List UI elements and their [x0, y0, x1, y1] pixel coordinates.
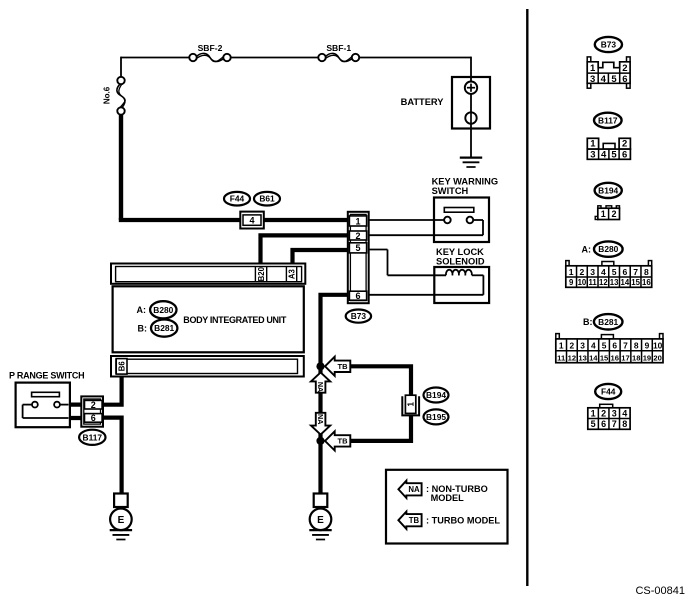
svg-text:No.6: No.6	[102, 86, 111, 104]
svg-text:SBF-1: SBF-1	[326, 43, 351, 53]
svg-text:2: 2	[622, 63, 627, 74]
svg-text:NA: NA	[408, 485, 420, 494]
svg-text:13: 13	[610, 278, 619, 287]
svg-text:12: 12	[599, 278, 608, 287]
svg-text:5: 5	[611, 150, 617, 161]
svg-text:7: 7	[623, 341, 628, 351]
svg-text:B61: B61	[259, 194, 275, 204]
svg-text:15: 15	[631, 278, 640, 287]
svg-text:8: 8	[622, 419, 627, 429]
svg-text:3: 3	[590, 74, 595, 85]
svg-text:3: 3	[580, 341, 585, 351]
svg-text:6: 6	[601, 419, 606, 429]
svg-text:3: 3	[590, 267, 595, 277]
svg-text:8: 8	[634, 341, 639, 351]
svg-text:1: 1	[591, 408, 596, 418]
svg-text:B117: B117	[598, 115, 618, 125]
svg-text:2: 2	[611, 209, 616, 219]
svg-text:19: 19	[643, 353, 651, 362]
svg-text:CS-00841: CS-00841	[635, 585, 685, 597]
svg-text:4: 4	[601, 150, 607, 161]
svg-text:: TURBO MODEL: : TURBO MODEL	[426, 516, 500, 526]
svg-text:B73: B73	[601, 40, 617, 50]
svg-text:15: 15	[600, 353, 609, 362]
svg-text:B20: B20	[257, 266, 266, 281]
svg-text:NA: NA	[316, 414, 325, 424]
svg-text:KEY WARNING: KEY WARNING	[432, 176, 498, 186]
svg-text:4: 4	[591, 341, 596, 351]
svg-text:2: 2	[570, 341, 575, 351]
svg-text:9: 9	[569, 278, 574, 287]
svg-text:2: 2	[91, 400, 96, 410]
svg-text:4: 4	[601, 267, 606, 277]
svg-text:6: 6	[91, 413, 96, 423]
svg-text:P RANGE SWITCH: P RANGE SWITCH	[9, 371, 84, 381]
svg-text:1: 1	[559, 341, 564, 351]
svg-text:16: 16	[642, 278, 651, 287]
svg-text:11: 11	[589, 278, 598, 287]
svg-text:BATTERY: BATTERY	[401, 97, 445, 107]
svg-text:1: 1	[590, 63, 596, 74]
svg-text:12: 12	[568, 353, 576, 362]
svg-text:10: 10	[653, 341, 663, 351]
svg-text:B281: B281	[598, 317, 618, 327]
svg-text:TB: TB	[338, 362, 349, 371]
svg-text:B194: B194	[598, 185, 618, 195]
svg-text:TB: TB	[338, 437, 349, 446]
svg-text:1: 1	[590, 139, 596, 150]
svg-text:1: 1	[601, 209, 606, 219]
svg-text:F44: F44	[601, 387, 616, 397]
svg-text:B:: B:	[583, 317, 593, 327]
svg-text:1: 1	[406, 402, 415, 407]
svg-text:5: 5	[602, 341, 607, 351]
svg-text:16: 16	[611, 353, 619, 362]
svg-text:20: 20	[653, 353, 661, 362]
svg-text:NA: NA	[316, 382, 325, 392]
svg-text:5: 5	[355, 243, 360, 253]
svg-text:A3: A3	[287, 269, 296, 280]
svg-text:MODEL: MODEL	[431, 493, 465, 503]
svg-text:E: E	[118, 515, 125, 526]
svg-text:2: 2	[601, 408, 606, 418]
svg-text:A:: A:	[137, 305, 147, 315]
svg-text:4: 4	[601, 74, 607, 85]
svg-text:B:: B:	[138, 323, 148, 333]
svg-text:3: 3	[590, 150, 595, 161]
svg-text:6: 6	[612, 341, 617, 351]
svg-text:8: 8	[644, 267, 649, 277]
svg-text:6: 6	[622, 150, 627, 161]
svg-text:11: 11	[557, 353, 566, 362]
svg-text:3: 3	[612, 408, 617, 418]
svg-text:6: 6	[355, 291, 360, 301]
svg-text:TB: TB	[409, 516, 420, 525]
svg-text:10: 10	[578, 278, 587, 287]
svg-text:2: 2	[355, 231, 360, 241]
svg-text:6: 6	[622, 267, 627, 277]
svg-text:5: 5	[612, 267, 617, 277]
svg-text:SBF-2: SBF-2	[198, 43, 223, 53]
svg-text:E: E	[317, 515, 324, 526]
svg-text:2: 2	[622, 139, 627, 150]
svg-text:5: 5	[591, 419, 596, 429]
svg-text:B280: B280	[153, 305, 173, 315]
svg-text:1: 1	[569, 267, 574, 277]
svg-text:SWITCH: SWITCH	[432, 186, 469, 196]
svg-text:BODY INTEGRATED UNIT: BODY INTEGRATED UNIT	[183, 315, 287, 325]
svg-text:17: 17	[621, 353, 629, 362]
svg-text:B195: B195	[426, 412, 446, 422]
svg-text:B117: B117	[83, 432, 103, 442]
svg-text:4: 4	[622, 408, 627, 418]
svg-text:B73: B73	[351, 311, 367, 321]
svg-text:6: 6	[622, 74, 627, 85]
svg-text:B6: B6	[117, 361, 126, 372]
svg-text:13: 13	[578, 353, 586, 362]
svg-text:1: 1	[355, 216, 360, 226]
svg-text:SOLENOID: SOLENOID	[436, 257, 485, 267]
svg-text:2: 2	[580, 267, 585, 277]
svg-text:A:: A:	[582, 244, 592, 254]
svg-text:B280: B280	[598, 244, 618, 254]
svg-text:4: 4	[249, 216, 254, 226]
svg-text:14: 14	[621, 278, 630, 287]
svg-text:9: 9	[645, 341, 650, 351]
svg-text:5: 5	[611, 74, 617, 85]
svg-text:7: 7	[633, 267, 638, 277]
svg-text:B281: B281	[154, 323, 174, 333]
svg-text:14: 14	[589, 353, 598, 362]
svg-text:7: 7	[612, 419, 617, 429]
svg-text:B194: B194	[426, 390, 446, 400]
svg-text:18: 18	[632, 353, 640, 362]
svg-text:F44: F44	[230, 194, 245, 204]
